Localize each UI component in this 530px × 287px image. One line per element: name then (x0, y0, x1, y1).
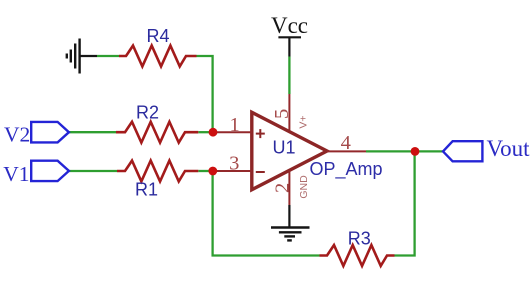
svg-text:R3: R3 (348, 229, 371, 249)
svg-text:R4: R4 (146, 26, 169, 46)
svg-text:V2: V2 (4, 122, 30, 146)
svg-text:R2: R2 (136, 103, 159, 123)
svg-text:2: 2 (271, 183, 293, 193)
svg-text:GND: GND (298, 175, 310, 199)
svg-text:Vcc: Vcc (271, 13, 308, 38)
svg-text:3: 3 (229, 153, 239, 175)
svg-text:V1: V1 (3, 162, 29, 186)
svg-text:U1: U1 (273, 138, 296, 158)
svg-text:4: 4 (341, 132, 351, 154)
svg-text:R1: R1 (135, 180, 158, 200)
svg-text:Vout: Vout (487, 136, 530, 161)
svg-text:OP_Amp: OP_Amp (310, 159, 383, 180)
svg-text:V+: V+ (298, 115, 310, 128)
svg-text:5: 5 (271, 109, 293, 119)
svg-text:1: 1 (229, 114, 239, 136)
